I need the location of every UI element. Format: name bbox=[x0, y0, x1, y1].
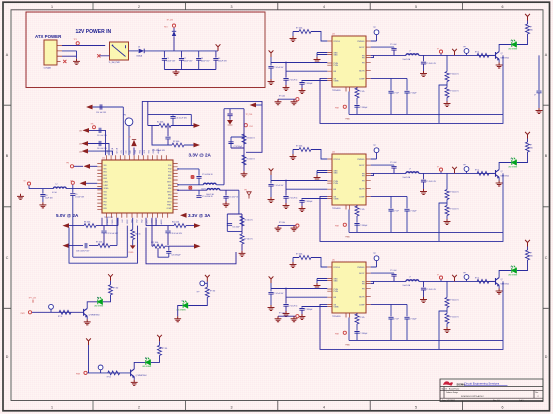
reg3 wire pg pair bbox=[278, 315, 296, 317]
reg2 wire vin bbox=[271, 175, 327, 184]
ground C21 bbox=[536, 108, 543, 114]
svg-text:TP?: TP? bbox=[463, 164, 466, 166]
ground cap bank bbox=[173, 70, 180, 76]
svg-text:PVIN: PVIN bbox=[334, 65, 339, 67]
diode D4 red bbox=[228, 120, 233, 125]
wire tp12v stem bbox=[77, 44, 79, 47]
resistor R3 100k bbox=[172, 143, 184, 147]
reg1 output net flag circle bbox=[439, 50, 442, 53]
wire pg1 box bbox=[231, 137, 244, 148]
svg-text:100uF 16V: 100uF 16V bbox=[218, 61, 228, 63]
wire pg2 gnd stub bbox=[241, 244, 243, 251]
capacitor C1 100uF bbox=[162, 59, 167, 61]
capacitor C4 100uF bbox=[213, 59, 218, 61]
reg3 wire divider gnd stub bbox=[446, 324, 448, 328]
svg-text:BL/TR: BL/TR bbox=[359, 296, 365, 298]
led circuit A wire collector bbox=[87, 302, 97, 309]
svg-text:TPS54620: TPS54620 bbox=[332, 208, 341, 210]
svg-text:D1: D1 bbox=[138, 46, 140, 48]
reg1 wire divider gnd stub bbox=[446, 98, 448, 102]
resistor R4 bbox=[242, 134, 246, 144]
svg-text:SW3: SW3 bbox=[168, 195, 172, 197]
svg-text:MODE: MODE bbox=[156, 219, 158, 225]
reg2 wire divider gnd stub bbox=[446, 216, 448, 220]
wire 3v3 loop inner bbox=[158, 248, 169, 257]
svg-text:SW1: SW1 bbox=[168, 178, 172, 180]
reg1 ground pgB bbox=[291, 99, 298, 105]
led circuit C input flag circle bbox=[84, 371, 87, 374]
reg3 wire en bbox=[286, 289, 327, 304]
reg2 capacitor Ccomp1 bbox=[388, 209, 393, 211]
svg-text:C20 4700pF: C20 4700pF bbox=[171, 255, 180, 257]
title block divider 1 bbox=[440, 386, 543, 388]
reg2 wire ss bbox=[302, 199, 327, 200]
resistor R7 bbox=[240, 234, 244, 244]
svg-text:LX1: LX1 bbox=[130, 150, 132, 153]
reg3 wire divider top bbox=[446, 281, 448, 297]
reg2 wire cvin lower bbox=[270, 186, 272, 197]
svg-text:TL_SW_PWR: TL_SW_PWR bbox=[109, 62, 121, 64]
reg2 ground pins bbox=[314, 175, 321, 181]
reg1 wire cout lower bbox=[423, 64, 425, 71]
svg-text:D?: D? bbox=[145, 358, 147, 360]
reg1 flag pwrgd bbox=[343, 105, 346, 108]
reg2 wire comp c2 bbox=[406, 196, 408, 232]
svg-text:VSNS: VSNS bbox=[334, 81, 340, 83]
reg1 wire comp c2 bbox=[406, 78, 408, 114]
svg-text:R?: R? bbox=[530, 253, 532, 255]
svg-text:PVIN: PVIN bbox=[334, 291, 339, 293]
wire cap C2 bottom stub bbox=[181, 60, 183, 69]
reg1 capacitor Css bbox=[299, 83, 304, 85]
wire in1 bbox=[89, 130, 106, 155]
reg1 ground pgA bbox=[275, 99, 282, 105]
wire 3v3 loop outer bbox=[146, 228, 236, 264]
reg1 wire out rail bbox=[419, 54, 495, 56]
reg3 resistor Rfb1 bbox=[445, 298, 449, 308]
svg-text:PGND: PGND bbox=[107, 219, 109, 225]
svg-text:Rev: 2.0: Rev: 2.0 bbox=[493, 400, 500, 402]
svg-text:2: 2 bbox=[138, 405, 140, 409]
wire vreg bbox=[93, 106, 124, 108]
svg-text:LED GREEN: LED GREEN bbox=[508, 275, 518, 277]
reg1 inductor L bbox=[406, 54, 419, 56]
wire reg1 far cap bbox=[538, 55, 540, 108]
svg-text:R? 56.2k 1%: R? 56.2k 1% bbox=[450, 74, 460, 76]
reg1 resistor Rfb2 bbox=[445, 88, 449, 98]
svg-text:330: 330 bbox=[530, 148, 533, 150]
svg-text:R? 100k: R? 100k bbox=[296, 28, 302, 30]
power flag arrow in1 bbox=[83, 128, 90, 133]
wire 5v row1 verts bbox=[102, 218, 118, 226]
led circuit A resistor Rled bbox=[109, 285, 113, 295]
reg3 resistor RT bbox=[299, 256, 311, 260]
reg1 ground cout bbox=[420, 71, 427, 77]
svg-text:PGND: PGND bbox=[112, 219, 114, 225]
svg-text:1: 1 bbox=[51, 405, 53, 409]
svg-text:ILIM2: ILIM2 bbox=[104, 185, 108, 187]
reg3 capacitor Css bbox=[299, 309, 304, 311]
reg2 wire gnd pins bbox=[317, 171, 327, 176]
wire 12V from J1 to switch bbox=[62, 45, 105, 47]
power flag 12V on bus bbox=[216, 44, 221, 51]
svg-text:SW2: SW2 bbox=[168, 185, 172, 187]
svg-text:R7 100 1%: R7 100 1% bbox=[244, 239, 253, 241]
reg2 ground emitter bbox=[496, 181, 503, 187]
svg-text:C? 47uF 6.3V: C? 47uF 6.3V bbox=[426, 181, 437, 183]
wire mid stem bbox=[132, 218, 134, 230]
reg2 wire pg pair bbox=[278, 225, 296, 227]
reg2 wire pad stem bbox=[348, 210, 350, 233]
svg-text:C? 1nF: C? 1nF bbox=[394, 318, 399, 320]
no-connect X at J1 pin 4 bbox=[63, 60, 66, 63]
svg-text:C? 4700pF: C? 4700pF bbox=[234, 146, 242, 148]
reg3 LED D green bbox=[511, 266, 516, 273]
testpoint flag x1 bbox=[191, 176, 194, 179]
reg3 power flag out bbox=[452, 275, 457, 282]
reg1 wire tp out stem bbox=[466, 53, 468, 55]
reg1 wire comp bbox=[371, 77, 407, 79]
svg-text:SS2: SS2 bbox=[104, 195, 107, 197]
svg-text:TPS54620: TPS54620 bbox=[332, 316, 341, 318]
reg2 wire collector bbox=[499, 163, 511, 170]
testpoint tick red bbox=[247, 192, 251, 199]
reg1 wire RT bbox=[293, 32, 327, 42]
reg2 ground pgB bbox=[291, 226, 298, 232]
svg-text:C? 3300pF: C? 3300pF bbox=[360, 333, 368, 335]
wire 5v row1 bbox=[69, 225, 118, 227]
wire cap C1 bottom stub bbox=[163, 60, 165, 69]
reg3 wire vsense loop bbox=[320, 281, 503, 349]
wire c9 stub bbox=[72, 189, 74, 193]
wire capA lower bbox=[172, 118, 174, 125]
svg-text:R? 47k: R? 47k bbox=[360, 91, 365, 93]
reg3 capacitor Cout 47uF bbox=[421, 288, 426, 290]
reg3 ground pgA bbox=[275, 316, 282, 322]
reg2 wire en bbox=[286, 181, 327, 196]
svg-text:C18 0.047uF 16V: C18 0.047uF 16V bbox=[76, 250, 90, 252]
reg1 wire cout stub bbox=[423, 55, 425, 61]
svg-text:C? 120pF: C? 120pF bbox=[410, 318, 417, 320]
svg-text:R? 100k: R? 100k bbox=[279, 313, 285, 315]
reg1 wire collector bbox=[499, 45, 511, 52]
reg2 wire base bbox=[489, 172, 496, 174]
reg3 wire comp bbox=[371, 303, 407, 305]
reg2 wire comp rc stub bbox=[356, 205, 358, 232]
reg2 flag pwrgd bbox=[343, 223, 346, 226]
output flag 5V circle bbox=[27, 182, 30, 185]
wire c20 lower bbox=[168, 253, 170, 257]
svg-text:R? 1k: R? 1k bbox=[475, 277, 479, 279]
svg-text:R?: R? bbox=[530, 27, 532, 29]
inductor L2 4.7uH bbox=[53, 187, 66, 189]
svg-text:C?: C? bbox=[534, 94, 536, 96]
reg2 wire pwrgd tp bbox=[371, 153, 377, 159]
reg2 wire out flag stem bbox=[440, 172, 442, 174]
reg3 wire css lower bbox=[301, 310, 303, 314]
led circuit C testpoint bbox=[98, 365, 103, 370]
led circuit C resistor Rled bbox=[158, 345, 162, 355]
reg1 power flag led bbox=[525, 14, 530, 21]
reg3 capacitor Ccomp2 bbox=[404, 317, 409, 319]
wire c19 stub bbox=[167, 226, 169, 231]
svg-text:BL/TR: BL/TR bbox=[359, 188, 365, 190]
power flag arrow rowB bbox=[194, 143, 201, 148]
reg1 testpoint flag pg bbox=[296, 98, 299, 101]
power flag arrow pg bbox=[250, 103, 257, 108]
capacitor C15 22uF bbox=[223, 196, 228, 198]
reg1 wire boot bbox=[371, 46, 394, 48]
wire tp 5v stem bbox=[72, 185, 74, 189]
wire in2 bbox=[88, 144, 109, 156]
capacitor C17 bbox=[101, 231, 106, 233]
reg1 wire divider top bbox=[446, 55, 448, 71]
reg1 ground RT bbox=[290, 36, 297, 42]
svg-text:VSNS: VSNS bbox=[334, 199, 340, 201]
reg2 wire css lower bbox=[301, 202, 303, 206]
svg-text:C? 0.1uF: C? 0.1uF bbox=[390, 44, 397, 46]
led circuit B wire top bbox=[206, 282, 208, 288]
wire c15 stub bbox=[225, 190, 227, 201]
diode D1 B340A bbox=[139, 49, 145, 54]
svg-text:TP?: TP? bbox=[463, 46, 466, 48]
capacitor C22 bbox=[196, 177, 201, 179]
svg-text:SS3: SS3 bbox=[104, 198, 107, 200]
wire 5v row2 bbox=[69, 218, 117, 246]
led circuit A net tick bbox=[32, 300, 34, 303]
reg2 wire RT bbox=[293, 150, 327, 160]
reg2 wire rled top bbox=[527, 139, 529, 143]
svg-text:LED GREEN: LED GREEN bbox=[508, 49, 518, 51]
capacitor C3 100uF bbox=[196, 59, 201, 61]
reg1 resistor Rcomp bbox=[355, 88, 359, 98]
reg3 wire tp out stem bbox=[466, 279, 468, 281]
svg-text:PVIN: PVIN bbox=[334, 183, 339, 185]
svg-text:4: 4 bbox=[323, 5, 325, 9]
reg1 wire pad stem bbox=[348, 92, 350, 115]
wire vreg stub bbox=[122, 107, 124, 155]
wire cap bank bottom rail bbox=[164, 69, 216, 71]
reg1 capacitor Cen bbox=[283, 79, 288, 81]
svg-text:VO1: VO1 bbox=[144, 150, 146, 153]
wire mid stem2 bbox=[132, 240, 134, 246]
svg-text:C? 47uF 6.3V: C? 47uF 6.3V bbox=[426, 63, 437, 65]
svg-text:C? 0.047uF 16: C? 0.047uF 16 bbox=[202, 196, 213, 198]
svg-text:C? 4.7uF 16V: C? 4.7uF 16V bbox=[274, 293, 285, 295]
reg1 wire out flag stem bbox=[440, 54, 442, 56]
power flag arrow 5v r2 bbox=[63, 243, 70, 248]
wire pg2 vert bbox=[227, 214, 242, 231]
svg-text:C? 4.7uF 16: C? 4.7uF 16 bbox=[289, 305, 298, 307]
reg1 transistor Q MMBT3904 bbox=[496, 52, 500, 60]
led circuit B ground bbox=[174, 316, 181, 322]
wire c8 lower bbox=[42, 196, 44, 202]
reg2 wire boot bbox=[371, 164, 394, 166]
inductor L3 10uH bbox=[203, 183, 216, 185]
reg2 testpoint circle bbox=[374, 148, 379, 153]
svg-text:R? 330: R? 330 bbox=[162, 348, 167, 350]
svg-text:BOOT: BOOT bbox=[359, 165, 365, 167]
testpoint flag row1 bbox=[93, 126, 96, 129]
led circuit A input flag circle bbox=[28, 311, 31, 314]
svg-text:C? 0.047uF 16: C? 0.047uF 16 bbox=[202, 174, 213, 176]
reg1 ground divider bbox=[444, 101, 451, 107]
svg-text:VSNS: VSNS bbox=[334, 307, 340, 309]
reg3 capacitor Cvin bbox=[268, 292, 273, 294]
reg3 capacitor Ccomp1 bbox=[388, 317, 393, 319]
reg3 wire out flag stem bbox=[440, 280, 442, 282]
svg-text:R9 100k: R9 100k bbox=[96, 242, 102, 244]
svg-text:SW2: SW2 bbox=[168, 188, 172, 190]
wire zener to tp bbox=[173, 28, 175, 31]
svg-text:SW3: SW3 bbox=[168, 198, 172, 200]
reg3 testpoint out bbox=[464, 275, 469, 280]
led circuit C wire collector bbox=[134, 362, 145, 369]
reg3 flag pwrgd bbox=[343, 331, 346, 334]
reg1 ground cen bbox=[283, 85, 290, 91]
wire 12V bus bbox=[145, 50, 219, 52]
power flag arrow en bbox=[84, 164, 91, 169]
regulator IC U4 body bbox=[332, 154, 366, 205]
power section outline box bbox=[26, 12, 265, 88]
led circuit B power flag bbox=[205, 275, 210, 282]
ground stray left bbox=[17, 194, 24, 200]
svg-text:ATX POWER: ATX POWER bbox=[35, 34, 62, 39]
reg2 ground cout bbox=[420, 189, 427, 195]
capacitor C9 bbox=[70, 194, 75, 196]
led circuit A wire tp stem bbox=[50, 309, 52, 312]
svg-text:C? 120pF: C? 120pF bbox=[410, 210, 417, 212]
wire 5v rail to IC bbox=[66, 188, 102, 190]
svg-text:EN3: EN3 bbox=[104, 178, 107, 180]
resistor R9 bbox=[98, 244, 110, 248]
reg3 wire comp c2 bbox=[406, 304, 408, 340]
wire L3 to IC bbox=[178, 184, 203, 186]
reg3 wire collector bbox=[499, 271, 511, 278]
svg-text:R? 100k: R? 100k bbox=[279, 222, 285, 224]
reg2 wire divider top bbox=[446, 173, 448, 189]
reg2 output net flag circle bbox=[439, 168, 442, 171]
wire pg1 left vert bbox=[216, 109, 224, 185]
svg-text:BST2: BST2 bbox=[127, 219, 129, 223]
wire tp3 to arrow bbox=[74, 165, 83, 167]
reg3 wire pad stem bbox=[348, 318, 350, 341]
svg-text:TP?: TP? bbox=[197, 292, 200, 294]
svg-text:C? 4.7uF 16: C? 4.7uF 16 bbox=[289, 79, 298, 81]
svg-text:C? 4.7uF 16V: C? 4.7uF 16V bbox=[274, 67, 285, 69]
svg-text:TP?: TP? bbox=[373, 145, 376, 147]
reg2 LED D green bbox=[511, 158, 516, 165]
svg-text:0.01uF 16V: 0.01uF 16V bbox=[75, 197, 85, 199]
reg1 capacitor Ccomp1 bbox=[388, 91, 393, 93]
svg-text:V?: V? bbox=[437, 166, 439, 168]
reg2 power flag led bbox=[525, 132, 530, 139]
junction right pins a bbox=[177, 168, 179, 170]
svg-text:VREG: VREG bbox=[104, 188, 109, 190]
main IC U1 body bbox=[102, 160, 173, 213]
svg-text:CMP2: CMP2 bbox=[146, 219, 148, 224]
svg-text:TP5: TP5 bbox=[244, 189, 247, 191]
reg3 wire out rail bbox=[419, 280, 495, 282]
testpoint flag TP2 12V bbox=[172, 24, 175, 27]
reg1 wire divider mid bbox=[439, 82, 447, 124]
svg-text:BST2: BST2 bbox=[167, 191, 171, 193]
reg1 resistor Rled bbox=[526, 24, 530, 34]
svg-text:HD1: HD1 bbox=[164, 26, 168, 28]
svg-text:TP?_12V: TP?_12V bbox=[29, 298, 37, 300]
led circuit C input flag stem bbox=[88, 345, 90, 373]
svg-text:V?: V? bbox=[437, 48, 439, 50]
svg-text:BST1: BST1 bbox=[167, 182, 171, 184]
svg-text:R4 100 1%: R4 100 1% bbox=[247, 138, 256, 140]
reg2 ground cvin bbox=[268, 197, 275, 203]
reg1 wire pwrgd tp bbox=[371, 35, 377, 41]
svg-text:R? 1k: R? 1k bbox=[58, 316, 62, 318]
led circuit B tp stem bbox=[205, 282, 208, 284]
power flag arrow 5v fb bbox=[80, 181, 87, 186]
svg-text:2: 2 bbox=[138, 5, 140, 9]
reg3 transistor Q MMBT3904 bbox=[496, 278, 500, 286]
svg-text:R? 47k: R? 47k bbox=[360, 317, 365, 319]
wire tp4 stem bbox=[128, 126, 130, 156]
power flag arrow 3v3 r2 bbox=[194, 244, 201, 249]
svg-text:FSEL: FSEL bbox=[167, 205, 171, 207]
load switch pole dot bbox=[112, 45, 114, 47]
title block underline bbox=[464, 385, 508, 387]
reg3 wire comp bottom bbox=[349, 339, 503, 341]
svg-text:TP?: TP? bbox=[373, 253, 376, 255]
wire c9 down to loop bbox=[72, 195, 74, 257]
testpoint flag TP3 bbox=[70, 165, 73, 168]
capacitor C8 22uF bbox=[40, 195, 45, 197]
reg2 resistor Rfb1 bbox=[445, 190, 449, 200]
reg3 wire ss bbox=[302, 307, 327, 308]
svg-text:EN2: EN2 bbox=[104, 175, 107, 177]
wire rowA rect bbox=[148, 101, 192, 125]
reg3 ground divider bbox=[444, 327, 451, 333]
svg-text:4: 4 bbox=[323, 405, 325, 409]
svg-text:3: 3 bbox=[231, 5, 233, 9]
reg3 wire cout stub bbox=[423, 281, 425, 287]
reg2 ground RT bbox=[290, 154, 297, 160]
svg-text:6: 6 bbox=[502, 405, 504, 409]
led circuit B resistor bbox=[205, 287, 209, 297]
wire cap C3 top stub bbox=[198, 51, 200, 58]
title block divider 3 bbox=[440, 397, 543, 399]
wire c17 stub bbox=[103, 226, 105, 231]
capacitor C14 bbox=[228, 142, 233, 144]
svg-text:C16 47pF: C16 47pF bbox=[232, 227, 239, 229]
reg3 ground pins bbox=[314, 283, 321, 289]
svg-text:FB3: FB3 bbox=[104, 208, 107, 210]
wire row1 filter bbox=[178, 169, 199, 185]
led circuit C wire tp stem bbox=[100, 370, 102, 373]
wire 3v3 row2 bbox=[152, 218, 194, 246]
svg-text:BOOT: BOOT bbox=[359, 47, 365, 49]
svg-text:LED GREEN: LED GREEN bbox=[142, 366, 152, 368]
wire c20 stub bbox=[168, 246, 170, 250]
wire capA stub bbox=[172, 114, 174, 115]
reg3 wire cout lower bbox=[423, 290, 425, 297]
reg1 capacitor Ccomp0 bbox=[354, 106, 359, 108]
reg3 resistor Rcomp bbox=[355, 314, 359, 324]
svg-text:RT/CLK: RT/CLK bbox=[334, 41, 341, 43]
svg-text:SCH2001-12-PP1-ACS-2: SCH2001-12-PP1-ACS-2 bbox=[461, 395, 484, 398]
reg2 wire cout lower bbox=[423, 182, 425, 189]
reg2 ground pgA bbox=[275, 226, 282, 232]
svg-text:D?: D? bbox=[511, 266, 513, 268]
reg3 resistor Rbase bbox=[477, 279, 489, 283]
